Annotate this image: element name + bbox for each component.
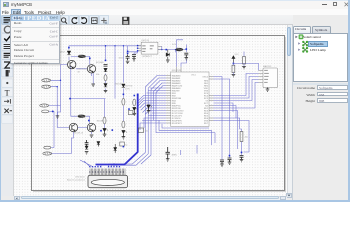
magnifier: [61, 18, 65, 22]
resistor R15: [120, 142, 129, 146]
transistor Q3: [69, 123, 77, 131]
resistor R17: [122, 121, 125, 128]
top toolbar: [0, 15, 350, 25]
menu bar: [0, 9, 350, 16]
svg-text:VCC: VCC: [235, 54, 240, 56]
svg-text:MAX232: MAX232: [263, 65, 272, 68]
svg-text:100n: 100n: [119, 58, 123, 60]
schematic sheet border: [32, 36, 286, 192]
resistor R14: [240, 132, 249, 142]
resistor R19: [128, 111, 138, 115]
window controls: [322, 3, 327, 6]
svg-text:OSC1: OSC1: [191, 74, 196, 76]
resistor R5: [44, 146, 51, 149]
resistor R13: [139, 128, 149, 133]
transistor Q4: [87, 123, 95, 131]
rotate cw: [81, 18, 86, 24]
svg-text:BD139-16: BD139-16: [74, 133, 84, 135]
diode D2: [104, 84, 107, 87]
microcontroller U2: [166, 67, 214, 127]
capacitor C6: [240, 156, 244, 160]
toolbar buttons svg: [58, 15, 138, 25]
LED D5: [133, 108, 138, 111]
diode D3: [166, 50, 169, 60]
ground: [185, 58, 189, 60]
diode D1: [67, 51, 71, 55]
LED D6: [147, 105, 152, 108]
transistor Q2: [87, 65, 95, 73]
ground: [126, 61, 130, 63]
resistor R11: [133, 99, 136, 106]
diode D9: [85, 146, 88, 149]
crystal X2: [166, 147, 177, 159]
svg-text:4MHz: 4MHz: [172, 154, 177, 156]
capacitor C7: [85, 140, 89, 146]
diode D2a: [104, 68, 107, 71]
svg-text:BD139-16: BD139-16: [78, 69, 88, 71]
capacitor C3: [184, 53, 188, 57]
resistor R3: [40, 104, 49, 107]
connector X1: [88, 166, 128, 188]
wire net left: [49, 40, 187, 167]
svg-text:10k: 10k: [96, 74, 99, 76]
ground: [122, 134, 126, 139]
resistor R2: [42, 85, 51, 88]
svg-text:Board in production: Board in production: [67, 179, 86, 182]
ground: [232, 63, 246, 77]
voltage regulator U1: [137, 40, 162, 58]
horizontal scrollbar: [14, 196, 287, 200]
svg-text:T: T: [4, 88, 9, 97]
ground: [147, 108, 151, 113]
right panel: [293, 15, 349, 200]
inductor L2: [78, 55, 86, 58]
IC U3: [259, 65, 278, 88]
box-arrows icon: [91, 18, 97, 24]
ground: [91, 84, 95, 86]
floppy/dark icon: [122, 17, 129, 25]
inductor L1: [176, 48, 184, 52]
ground: [220, 164, 224, 166]
ground: [240, 160, 244, 162]
diode D4: [232, 56, 235, 63]
svg-text:1N4148: 1N4148: [115, 84, 123, 86]
ground: [103, 132, 107, 137]
svg-text:to PC: to PC: [125, 88, 131, 91]
plus-parts icon: [101, 18, 106, 23]
resistor R1: [42, 79, 51, 82]
junction handle: [123, 146, 125, 148]
resistor R4: [42, 110, 49, 113]
ground: [228, 162, 232, 164]
capacitor C5: [228, 158, 232, 162]
wire net right: [156, 63, 259, 160]
svg-text:OSC2: OSC2: [202, 76, 209, 78]
icons: [3, 17, 10, 22]
capacitor C4: [220, 160, 224, 164]
diode D10: [97, 142, 100, 147]
resistor R6: [43, 152, 52, 155]
LED D7: [122, 131, 127, 134]
diode D11: [114, 144, 117, 153]
title bar: [0, 0, 350, 9]
svg-text:5.0V: 5.0V: [172, 44, 177, 46]
ground: [266, 88, 270, 92]
ground: [104, 90, 108, 92]
ground: [90, 135, 94, 137]
svg-text:LM2576: LM2576: [141, 40, 149, 42]
ground: [132, 59, 136, 61]
ground: [166, 60, 170, 62]
resistor R9: [104, 75, 107, 81]
dropdown menu: [10, 14, 60, 64]
ground: [133, 111, 137, 116]
capacitor C1: [126, 55, 130, 61]
canvas area: [14, 25, 287, 196]
svg-text:RD1/PSP1: RD1/PSP1: [172, 123, 183, 125]
ground: [85, 152, 89, 154]
capacitor C8: [104, 64, 108, 66]
svg-text:RX/TXD: RX/TXD: [125, 86, 133, 88]
resistor R10: [232, 57, 245, 73]
inductor L3: [78, 114, 86, 117]
right divider: [292, 25, 294, 200]
property form: [293, 83, 349, 85]
LED D13: [103, 129, 108, 132]
ground: [166, 159, 170, 161]
tree box: [293, 33, 348, 83]
note text: [67, 176, 86, 182]
svg-text:LM7805CT: LM7805CT: [142, 56, 153, 58]
wire: [243, 52, 245, 67]
bus thick: [96, 94, 138, 165]
tabs: [293, 26, 311, 33]
ground: [56, 116, 60, 118]
svg-text:MCLR/VPP: MCLR/VPP: [172, 70, 182, 72]
transistor Q1: [68, 60, 76, 68]
svg-text:LED driver: LED driver: [75, 176, 85, 179]
vertical scrollbar: [287, 25, 292, 196]
left toolbar strip: [0, 15, 14, 196]
capacitor C2: [132, 55, 136, 59]
window borders: [0, 0, 350, 1]
rotate ccw: [71, 18, 76, 24]
diode D12: [122, 84, 125, 87]
junction handles: [52, 47, 242, 157]
resistor R12: [122, 98, 125, 105]
bus thin lines: [80, 76, 166, 167]
svg-text:BC546B: BC546B: [96, 62, 104, 64]
resistor R16: [103, 117, 106, 124]
